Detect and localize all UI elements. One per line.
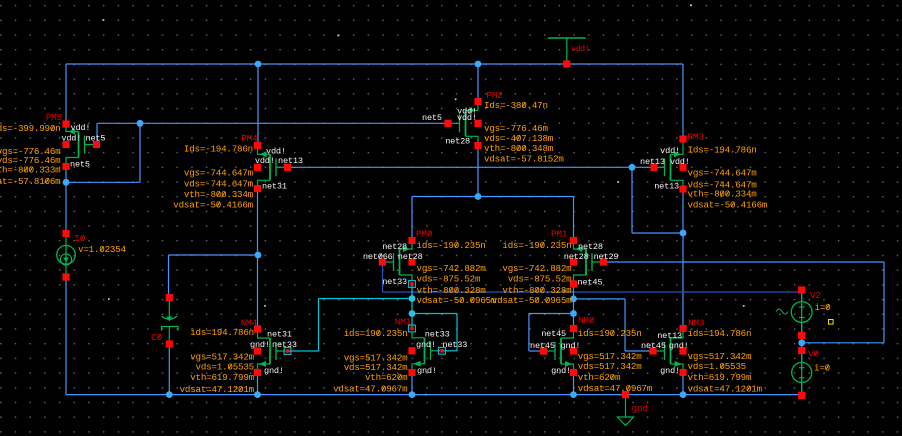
- svg-text:v=1.02354: v=1.02354: [78, 244, 127, 255]
- svg-text:ids=194.786n: ids=194.786n: [190, 327, 254, 338]
- svg-text:PM1: PM1: [551, 229, 568, 240]
- svg-text:net33: net33: [382, 277, 407, 287]
- svg-text:vds=1.05535: vds=1.05535: [688, 361, 746, 372]
- svg-text:net29: net29: [594, 252, 619, 262]
- svg-text:gnd!: gnd!: [551, 366, 571, 376]
- svg-text:NM1: NM1: [395, 317, 412, 328]
- svg-text:vth=620m: vth=620m: [578, 372, 621, 383]
- svg-text:PM0: PM0: [416, 229, 433, 240]
- svg-text:NM0: NM0: [578, 315, 595, 326]
- svg-text:vdsat=-50.0965m: vdsat=-50.0965m: [417, 295, 497, 306]
- svg-text:vds=1.05535: vds=1.05535: [196, 362, 254, 373]
- svg-text:ids=190.235n: ids=190.235n: [578, 328, 642, 339]
- svg-text:net45: net45: [578, 277, 603, 287]
- svg-text:Ids=-194.786n: Ids=-194.786n: [688, 145, 757, 156]
- svg-text:gnd!: gnd!: [416, 340, 436, 350]
- svg-text:gnd!: gnd!: [264, 366, 284, 376]
- svg-text:vds=517.342m: vds=517.342m: [578, 361, 642, 372]
- svg-text:PM4: PM4: [241, 133, 258, 144]
- svg-text:PM3: PM3: [688, 132, 705, 143]
- svg-text:vdsat=-50.0965m: vdsat=-50.0965m: [492, 295, 572, 306]
- svg-text:net13: net13: [657, 331, 682, 341]
- svg-text:net13: net13: [654, 182, 679, 192]
- svg-text:vds=-875.52m: vds=-875.52m: [508, 274, 572, 285]
- svg-text:vdd!: vdd!: [255, 156, 275, 166]
- svg-text:V2: V2: [810, 290, 821, 301]
- svg-text:net45: net45: [541, 329, 566, 339]
- svg-text:vdd!: vdd!: [71, 123, 91, 133]
- svg-text:net5: net5: [422, 113, 442, 123]
- svg-text:net13: net13: [640, 157, 665, 167]
- svg-text:Ids=-380.47n: Ids=-380.47n: [484, 100, 548, 111]
- svg-text:gnd: gnd: [632, 403, 648, 414]
- svg-text:vdsat=47.0967m: vdsat=47.0967m: [333, 384, 408, 395]
- svg-text:net31: net31: [262, 182, 287, 192]
- svg-text:vdd!: vdd!: [670, 157, 690, 167]
- svg-text:ids=-190.235n: ids=-190.235n: [502, 240, 571, 251]
- svg-text:vdd!: vdd!: [457, 113, 477, 123]
- svg-text:vds=-744.647m: vds=-744.647m: [184, 179, 254, 190]
- svg-text:net33: net33: [272, 340, 297, 350]
- svg-text:ids=-190.235n: ids=-190.235n: [417, 240, 486, 251]
- svg-text:net28: net28: [398, 252, 423, 262]
- svg-text:i=0: i=0: [814, 363, 830, 374]
- svg-text:vds=-875.52m: vds=-875.52m: [417, 274, 481, 285]
- svg-text:gnd!: gnd!: [250, 340, 270, 350]
- svg-text:vth=619.799m: vth=619.799m: [688, 372, 752, 383]
- svg-text:net5: net5: [86, 134, 106, 144]
- svg-text:net31: net31: [267, 330, 292, 340]
- svg-text:net45: net45: [641, 341, 666, 351]
- svg-text:vth=619.799m: vth=619.799m: [190, 372, 254, 383]
- svg-text:vdd!: vdd!: [61, 134, 81, 144]
- svg-text:net33: net33: [442, 340, 467, 350]
- svg-text:vdsat=47.0967m: vdsat=47.0967m: [578, 383, 653, 394]
- svg-text:vdsat=47.1201m: vdsat=47.1201m: [180, 384, 255, 395]
- svg-text:ids=194.786n: ids=194.786n: [688, 328, 752, 339]
- svg-text:Ids=-194.786n: Ids=-194.786n: [184, 144, 253, 155]
- svg-text:vdsat=-57.8152m: vdsat=-57.8152m: [484, 153, 564, 164]
- svg-text:vth=-800.334m: vth=-800.334m: [688, 189, 758, 200]
- svg-text:vdd!: vdd!: [660, 146, 680, 156]
- svg-text:vdsat=-57.8106m: vdsat=-57.8106m: [0, 176, 61, 187]
- svg-text:vdd!: vdd!: [571, 45, 589, 54]
- svg-text:vth=620m: vth=620m: [365, 372, 408, 383]
- svg-text:vdsat=47.1201m: vdsat=47.1201m: [688, 384, 763, 395]
- svg-text:net28: net28: [564, 252, 589, 262]
- svg-text:vdsat=-50.4166m: vdsat=-50.4166m: [173, 200, 253, 211]
- svg-text:gnd!: gnd!: [417, 366, 437, 376]
- svg-text:C0: C0: [151, 332, 162, 343]
- svg-text:Ids=-399.990n: Ids=-399.990n: [0, 123, 61, 134]
- svg-text:net28: net28: [445, 137, 470, 147]
- svg-text:gnd!: gnd!: [561, 341, 581, 351]
- svg-text:gnd!: gnd!: [669, 341, 689, 351]
- svg-text:net066: net066: [363, 252, 393, 262]
- svg-text:V0: V0: [808, 349, 819, 360]
- svg-text:vgs=-744.647m: vgs=-744.647m: [688, 168, 758, 179]
- svg-text:vgs=-744.647m: vgs=-744.647m: [184, 168, 254, 179]
- svg-text:ids=190.235n: ids=190.235n: [344, 328, 408, 339]
- svg-text:i=0: i=0: [815, 302, 831, 313]
- svg-text:vdsat=-50.4166m: vdsat=-50.4166m: [688, 200, 768, 211]
- svg-text:net45: net45: [530, 341, 555, 351]
- svg-text:I0: I0: [74, 233, 85, 244]
- svg-text:net28: net28: [578, 242, 603, 252]
- svg-text:NM3: NM3: [688, 317, 705, 328]
- svg-text:vgs=-742.882m: vgs=-742.882m: [502, 263, 572, 274]
- svg-text:gnd!: gnd!: [660, 366, 680, 376]
- svg-text:PM5: PM5: [46, 112, 63, 123]
- svg-text:net28: net28: [382, 242, 407, 252]
- svg-text:vgs=-742.882m: vgs=-742.882m: [417, 263, 487, 274]
- svg-text:net13: net13: [278, 156, 303, 166]
- svg-text:net33: net33: [425, 330, 450, 340]
- svg-text:net5: net5: [70, 160, 90, 170]
